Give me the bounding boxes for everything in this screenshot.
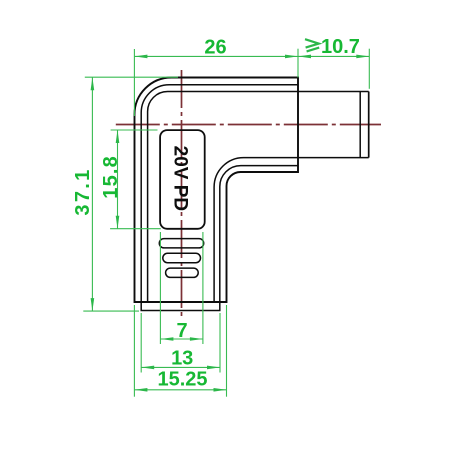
greater-or-equal symbol bbox=[305, 39, 319, 51]
dimension 13 bbox=[141, 313, 220, 373]
dimension 37.1 bbox=[83, 77, 178, 311]
svg-text:15.25: 15.25 bbox=[157, 369, 207, 391]
barrel plug end bbox=[368, 92, 370, 158]
horizontal centerline bbox=[116, 124, 381, 126]
vent slot 2 bbox=[163, 253, 201, 262]
body outer contour bbox=[135, 78, 299, 303]
vent slot 3 bbox=[166, 268, 199, 277]
body inner contour bottom + barrel bottom bbox=[214, 158, 369, 302]
svg-text:15.8: 15.8 bbox=[100, 155, 122, 199]
vent slot 1 bbox=[159, 239, 203, 248]
svg-text:37.1: 37.1 bbox=[72, 167, 94, 215]
body inner contour top + barrel top bbox=[148, 92, 369, 303]
barrel tip line bbox=[359, 92, 361, 158]
vertical centerline bbox=[181, 70, 183, 318]
svg-text:13: 13 bbox=[171, 347, 193, 369]
svg-text:10.7: 10.7 bbox=[321, 36, 360, 58]
dimension 26 bbox=[134, 49, 298, 116]
dimension 15.25 bbox=[134, 305, 226, 397]
dimension 7 bbox=[160, 232, 203, 344]
svg-text:20V PD: 20V PD bbox=[169, 146, 190, 211]
dimension >=10.7 bbox=[298, 49, 369, 89]
dimension 15.8 bbox=[110, 130, 161, 229]
label 20V PD bbox=[160, 130, 205, 229]
svg-text:7: 7 bbox=[176, 320, 187, 342]
body middle contour (sleeve) bbox=[141, 85, 298, 311]
svg-text:26: 26 bbox=[204, 37, 226, 59]
